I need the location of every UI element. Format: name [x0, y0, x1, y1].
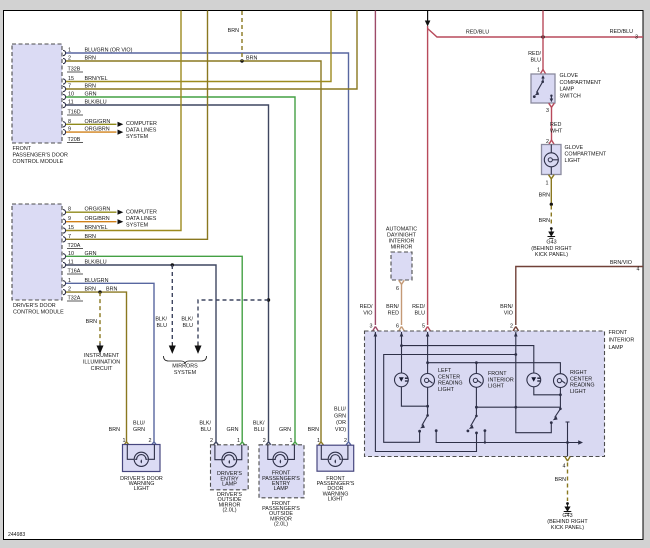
- svg-text:SYSTEM: SYSTEM: [126, 134, 149, 140]
- node COMPUTER DATA LINES SYSTEM (upper): [126, 121, 157, 140]
- svg-text:GRN: GRN: [279, 427, 291, 433]
- lamp E8 FRONT PASSENGER'S DOOR WARNING LIGHT: [317, 438, 355, 503]
- wire BRN/RED mirror pin 6 to interior lamp pin 6: [396, 280, 404, 331]
- svg-text:ILLUMINATION: ILLUMINATION: [83, 360, 120, 366]
- wire BRN dashed to ground G43 (upper): [539, 206, 552, 227]
- svg-text:BLU/: BLU/: [133, 421, 145, 427]
- svg-text:LIGHT: LIGHT: [565, 158, 582, 164]
- junction lamp rail at front interior light: [475, 406, 478, 409]
- svg-text:VIO): VIO): [335, 427, 346, 433]
- wire RED/BLU from top to glove compartment lamp switch: [528, 11, 546, 75]
- svg-text:2: 2: [263, 438, 266, 444]
- svg-text:BRN: BRN: [86, 319, 97, 325]
- lamp E3 FRONT INTERIOR LIGHT: [470, 371, 514, 390]
- node COMPUTER DATA LINES SYSTEM (lower): [126, 210, 157, 229]
- wire BLK/BLU dashed (right) to mirrors system: [181, 300, 268, 343]
- splice on BRN below glove light: [550, 203, 553, 206]
- svg-text:LAMP: LAMP: [560, 87, 575, 93]
- svg-text:VIO: VIO: [504, 311, 513, 317]
- lamp E5 DRIVER'S DOOR WARNING LIGHT: [120, 438, 163, 492]
- svg-text:LAMP: LAMP: [274, 486, 289, 492]
- svg-text:RED/BLU: RED/BLU: [610, 29, 633, 35]
- svg-text:BLU: BLU: [254, 427, 265, 433]
- splice junction on U1 pin 2: [240, 59, 243, 62]
- ground G43 (behind right kick panel, upper): [531, 227, 572, 258]
- junction on RED/BLU at glove switch drop: [541, 35, 544, 38]
- svg-text:T20B: T20B: [68, 137, 81, 143]
- svg-text:4: 4: [637, 267, 640, 273]
- wire U2 pin 8 ORG/GRN to computer data lines: [63, 207, 117, 215]
- wire LED D1 to left switch: [401, 387, 427, 406]
- arrow (left) to mirrors system: [170, 343, 175, 353]
- wire U2 pin 9 ORG/BRN to computer data lines: [63, 216, 117, 224]
- pin labels above interior lamp: [360, 304, 514, 330]
- svg-text:FRONT: FRONT: [488, 371, 507, 377]
- wire U2 pin 15 BRN/YEL to top: [63, 11, 181, 234]
- svg-text:BLK/: BLK/: [155, 317, 167, 323]
- svg-text:LIGHT: LIGHT: [438, 387, 455, 393]
- svg-text:LIGHT: LIGHT: [328, 497, 345, 503]
- module FRONT INTERIOR LAMP box: [365, 330, 635, 457]
- wire U1 pin 9 ORG/BRN to computer data lines: [63, 127, 117, 135]
- svg-text:RED: RED: [550, 122, 561, 128]
- junction pin5 rail at front interior light: [475, 361, 478, 364]
- node MIRRORS SYSTEM: [172, 364, 198, 377]
- svg-text:BRN: BRN: [539, 193, 550, 199]
- wire RED/WHT switch to glove compartment light: [546, 103, 563, 145]
- svg-text:BRN: BRN: [109, 427, 120, 433]
- svg-text:READING: READING: [438, 381, 463, 387]
- svg-text:6: 6: [396, 324, 399, 330]
- pin 2 entry arrow: [514, 332, 518, 337]
- junction pin5 rail at left reading light: [426, 361, 429, 364]
- svg-text:RED/: RED/: [412, 304, 425, 310]
- junction on pin 6 feed: [400, 344, 403, 347]
- svg-text:BRN/: BRN/: [500, 304, 513, 310]
- svg-text:1: 1: [123, 438, 126, 444]
- svg-text:BRN: BRN: [555, 477, 566, 483]
- svg-text:FRONT: FRONT: [609, 330, 628, 336]
- svg-text:COMPARTMENT: COMPARTMENT: [560, 80, 602, 86]
- svg-text:1: 1: [537, 68, 540, 74]
- svg-text:1: 1: [237, 438, 240, 444]
- svg-text:PASSENGER'S DOOR: PASSENGER'S DOOR: [13, 153, 69, 159]
- svg-text:5: 5: [422, 324, 425, 330]
- wire U2 pin 10 GRN to driver entry lamp: [63, 251, 245, 445]
- arrow to instrument illumination circuit: [97, 343, 102, 353]
- svg-text:GLOVE: GLOVE: [560, 73, 579, 79]
- svg-text:T32B: T32B: [68, 67, 81, 73]
- svg-text:2: 2: [210, 438, 213, 444]
- wire RED/BLU vertical to interior lamp pin 5: [425, 26, 431, 331]
- svg-text:3: 3: [370, 324, 373, 330]
- arrow (right) to mirrors system: [195, 343, 200, 353]
- arrow to computer data lines (U2 pin 9): [118, 219, 124, 224]
- wire U1 pin 10 GRN to front passenger entry lamp: [63, 92, 298, 446]
- brace mirrors system: [164, 356, 207, 364]
- svg-text:GRN: GRN: [133, 427, 145, 433]
- wire U1 pin 15 BRN/YEL to top: [63, 11, 331, 85]
- wire BRN glove light to splice: [539, 175, 554, 203]
- svg-text:DRIVER'S DOOR: DRIVER'S DOOR: [13, 303, 56, 309]
- svg-text:1: 1: [290, 438, 293, 444]
- svg-text:LIGHT: LIGHT: [488, 384, 505, 390]
- wire BRN/VIO from right edge to interior lamp pin 2: [513, 260, 643, 331]
- svg-text:2: 2: [344, 438, 347, 444]
- wire pin 5 RED/BLU feed to lamps: [428, 332, 561, 374]
- module AUTOMATIC DAY/NIGHT INTERIOR MIRROR: [386, 227, 417, 281]
- svg-text:BLK/: BLK/: [199, 421, 211, 427]
- svg-text:GRN: GRN: [227, 427, 239, 433]
- svg-text:COMPARTMENT: COMPARTMENT: [565, 152, 607, 158]
- svg-text:T32A: T32A: [68, 296, 81, 302]
- connector T16D: [67, 110, 83, 116]
- lamp E2 LEFT CENTER READING LIGHT: [421, 368, 463, 393]
- wire U1 pin 2 BRN to front passenger door warning light: [63, 56, 324, 446]
- wire U1 pin 1 BLU/GRN (OR VIO) to front passenger door warning light: [63, 48, 351, 446]
- svg-text:RED/BLU: RED/BLU: [466, 30, 489, 36]
- junction LED D1 wire at left switch: [426, 405, 429, 408]
- svg-text:BLU: BLU: [415, 311, 426, 317]
- svg-text:GRN: GRN: [334, 413, 346, 419]
- svg-text:COMPUTER: COMPUTER: [126, 210, 157, 216]
- svg-text:RED/: RED/: [528, 51, 541, 57]
- svg-text:BLU: BLU: [201, 427, 212, 433]
- svg-text:BRN: BRN: [246, 56, 257, 62]
- wire LED D2 to right reading light column: [534, 387, 561, 395]
- svg-text:BRN/VIO: BRN/VIO: [610, 260, 632, 266]
- svg-text:INTERIOR: INTERIOR: [609, 338, 635, 344]
- pin 6 entry arrow: [400, 332, 404, 337]
- lamp E7 FRONT PASSENGER'S ENTRY LAMP: [259, 438, 304, 528]
- svg-text:CIRCUIT: CIRCUIT: [91, 366, 114, 372]
- connector T32A: [67, 296, 83, 302]
- connector T16A: [67, 269, 83, 275]
- svg-text:INSTRUMENT: INSTRUMENT: [84, 353, 120, 359]
- LED D2 right courtesy diode: [527, 373, 541, 387]
- svg-text:FRONT: FRONT: [13, 146, 32, 152]
- ground G43 (behind right kick panel, lower): [547, 502, 588, 531]
- svg-text:WHT: WHT: [550, 129, 563, 135]
- node center contact of front interior light switch: [475, 432, 478, 435]
- wire pin 2 BRN/VIO ground rail: [384, 332, 552, 442]
- svg-text:T16D: T16D: [68, 110, 81, 116]
- junction LED D2 wire: [559, 393, 562, 396]
- wire U2 pin 2 BRN to driver door warning light: [63, 287, 129, 446]
- lamp E6 DRIVER'S ENTRY LAMP: [210, 438, 248, 514]
- splice junction on BLK/BLU vertical of U1 pin 11: [267, 298, 270, 301]
- svg-text:VIO: VIO: [363, 311, 372, 317]
- wire ground exit stub: [566, 422, 570, 457]
- connector T32B: [67, 67, 83, 73]
- svg-text:BLU/: BLU/: [334, 407, 346, 413]
- svg-text:1: 1: [546, 181, 549, 187]
- svg-text:4: 4: [563, 464, 566, 470]
- svg-text:3: 3: [546, 108, 549, 114]
- svg-text:GLOVE: GLOVE: [565, 145, 584, 151]
- svg-text:LIGHT: LIGHT: [570, 389, 587, 395]
- svg-text:DATA LINES: DATA LINES: [126, 128, 157, 134]
- splice junction on U2 pin 11: [171, 263, 174, 266]
- pin 3 entry arrow: [374, 332, 378, 337]
- lamp E4 RIGHT CENTER READING LIGHT: [554, 370, 595, 395]
- module U2 DRIVER'S DOOR CONTROL MODULE: [12, 204, 64, 316]
- svg-text:KICK PANEL): KICK PANEL): [551, 525, 584, 531]
- svg-text:CENTER: CENTER: [438, 374, 460, 380]
- svg-text:MIRROR: MIRROR: [391, 245, 413, 251]
- wire BRN dashed interior lamp pin 4 to ground G43: [555, 457, 571, 502]
- svg-text:(OR: (OR: [336, 420, 346, 426]
- svg-text:BLU: BLU: [157, 323, 168, 329]
- wire BRN dashed to instrument illumination circuit: [86, 292, 100, 343]
- svg-text:RED: RED: [388, 311, 399, 317]
- svg-text:CONTROL MODULE: CONTROL MODULE: [13, 159, 64, 165]
- svg-text:2: 2: [510, 324, 513, 330]
- module U1 FRONT PASSENGER'S DOOR CONTROL MODULE: [12, 44, 68, 165]
- svg-text:INTERIOR: INTERIOR: [488, 377, 514, 383]
- arrow to computer data lines (pin 9): [118, 130, 124, 135]
- svg-text:BRN: BRN: [228, 28, 239, 34]
- svg-text:2: 2: [149, 438, 152, 444]
- pin 5 entry arrow: [426, 332, 430, 337]
- svg-text:SWITCH: SWITCH: [560, 93, 581, 99]
- wire U1 pin 11 BLK/BLU to front passenger entry lamp: [63, 100, 271, 446]
- svg-text:DATA LINES: DATA LINES: [126, 216, 157, 222]
- switch SW2 front interior light switch: [467, 387, 478, 432]
- switch SW1 left reading light switch: [418, 387, 429, 432]
- svg-text:KICK PANEL): KICK PANEL): [535, 252, 568, 258]
- svg-text:BRN: BRN: [539, 218, 550, 224]
- svg-text:6: 6: [396, 286, 399, 292]
- svg-text:BLK/: BLK/: [181, 317, 193, 323]
- wire U1 pin 7 BRN to top: [63, 11, 357, 92]
- arrow to computer data lines (U2 pin 8): [118, 210, 124, 215]
- node GLOVE COMPARTMENT LAMP SWITCH label: [560, 73, 602, 99]
- junction pin2 at horizontal rail: [514, 353, 517, 356]
- svg-text:(2.0L): (2.0L): [274, 522, 288, 528]
- svg-text:1: 1: [317, 438, 320, 444]
- svg-text:RIGHT: RIGHT: [570, 370, 587, 376]
- svg-text:LAMP: LAMP: [222, 482, 237, 488]
- wire RED/BLU horizontal to right edge: [428, 29, 643, 41]
- svg-text:LEFT: LEFT: [438, 368, 452, 374]
- svg-text:G43: G43: [546, 240, 556, 246]
- connector T20B: [67, 137, 83, 143]
- svg-text:RED/: RED/: [360, 304, 373, 310]
- wire U2 pin 11 BLK/BLU to driver entry lamp: [63, 260, 219, 446]
- svg-text:T16A: T16A: [68, 269, 81, 275]
- wire U2 pin 7 BRN to top: [63, 11, 208, 242]
- wire labels above front passenger entry lamp: [253, 421, 291, 434]
- wire labels above driver entry lamp: [199, 421, 238, 434]
- svg-text:SYSTEM: SYSTEM: [126, 223, 149, 229]
- switch S1 GLOVE COMPARTMENT LAMP SWITCH: [531, 74, 555, 103]
- svg-text:READING: READING: [570, 383, 595, 389]
- svg-text:BRN/: BRN/: [386, 304, 399, 310]
- junction pin2 at lamp rail: [514, 406, 517, 409]
- svg-text:CONTROL MODULE: CONTROL MODULE: [13, 310, 64, 316]
- node GLOVE COMPARTMENT LIGHT label: [565, 145, 607, 164]
- svg-text:BLU: BLU: [183, 323, 194, 329]
- svg-text:244983: 244983: [8, 532, 25, 538]
- svg-text:T20A: T20A: [68, 243, 81, 249]
- svg-text:CENTER: CENTER: [570, 376, 592, 382]
- wire RED/VIO from top to interior lamp pin 3: [373, 11, 379, 332]
- svg-text:MIRRORS: MIRRORS: [172, 364, 198, 370]
- LED D1 left courtesy diode: [395, 373, 409, 387]
- wire labels above front passenger door warning light: [308, 407, 347, 434]
- wire BLK/BLU dashed (left) to mirrors system: [155, 265, 172, 343]
- svg-text:LAMP: LAMP: [609, 345, 624, 351]
- svg-text:COMPUTER: COMPUTER: [126, 121, 157, 127]
- arrow from fuse (top feed): [425, 11, 431, 27]
- wire BRN dashed to top (fuse): [228, 11, 242, 61]
- svg-text:LIGHT: LIGHT: [134, 486, 151, 492]
- connector T20A: [67, 243, 83, 249]
- arrow to computer data lines (pin 8): [118, 122, 124, 127]
- wire pin 3 RED/VIO feed rail: [375, 332, 476, 452]
- lamp E1 GLOVE COMPARTMENT LIGHT: [542, 145, 562, 175]
- wire pin 6 BRN/RED feed to LEDs: [402, 332, 534, 373]
- svg-text:BLU: BLU: [531, 58, 542, 64]
- splice junction on U2 pin 2: [98, 290, 101, 293]
- svg-text:(2.0L): (2.0L): [222, 508, 236, 514]
- svg-text:BRN: BRN: [106, 287, 117, 293]
- svg-text:SYSTEM: SYSTEM: [174, 370, 197, 376]
- wire labels above driver door warning light: [109, 421, 146, 434]
- wire U1 pin 8 ORG/GRN to computer data lines: [63, 119, 117, 127]
- wire lamp bottom rail: [476, 406, 560, 408]
- node INSTRUMENT ILLUMINATION CIRCUIT: [83, 353, 120, 372]
- switch SW3 right reading light switch: [550, 388, 562, 425]
- wire switch SW2 throw contacts U-link: [435, 429, 583, 445]
- svg-text:BLK/: BLK/: [253, 421, 265, 427]
- svg-text:3: 3: [635, 35, 638, 41]
- svg-text:BRN: BRN: [308, 427, 319, 433]
- wire U2 pin 1 BLU/GRN to driver door warning light: [63, 278, 157, 445]
